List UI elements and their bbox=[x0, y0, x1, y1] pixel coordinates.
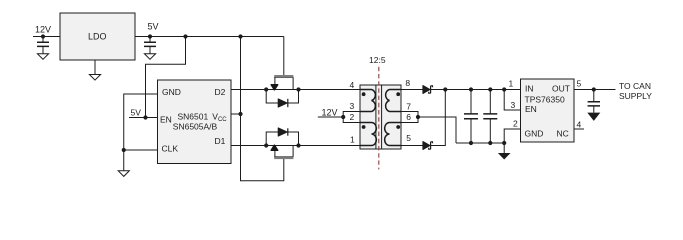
ground (open) under U1 bbox=[118, 171, 129, 177]
svg-text:3: 3 bbox=[350, 101, 355, 111]
capacitor C4 bbox=[488, 87, 492, 91]
svg-text:GND: GND bbox=[162, 87, 181, 97]
svg-text:5: 5 bbox=[406, 133, 411, 143]
wire diode D_B to rectifier node bbox=[431, 90, 446, 146]
T1 primary winding lower bbox=[360, 123, 376, 146]
junction EN wire bbox=[143, 115, 147, 119]
wire secondary ground rail bbox=[456, 142, 504, 144]
T1 secondary winding lower bbox=[385, 123, 401, 146]
svg-text:4: 4 bbox=[350, 80, 355, 90]
svg-text:SN6501: SN6501 bbox=[178, 112, 209, 122]
Q2 source arrow bbox=[271, 145, 278, 150]
junction CLK/GND bbox=[122, 148, 126, 152]
junction Q2 right bbox=[296, 143, 300, 147]
junction 5V rail to Vcc/Q2 gate feed bbox=[238, 34, 242, 38]
wire GND pin of U1 bbox=[124, 94, 158, 171]
capacitor C_12V bbox=[42, 37, 44, 43]
svg-text:2: 2 bbox=[513, 119, 518, 129]
wire rectified rail to TPS IN bbox=[430, 89, 520, 91]
svg-text:2: 2 bbox=[350, 112, 355, 122]
junction Q1 left bbox=[264, 87, 268, 91]
junction ground rail end bbox=[502, 141, 506, 145]
wire Q1 gate stem bbox=[283, 37, 285, 76]
svg-text:NC: NC bbox=[557, 128, 569, 138]
svg-text:1: 1 bbox=[509, 78, 514, 88]
Q1 body diode bbox=[278, 99, 287, 107]
svg-text:SUPPLY: SUPPLY bbox=[619, 91, 652, 101]
svg-text:LDO: LDO bbox=[88, 32, 107, 42]
T1 phase dot secondary upper bbox=[396, 92, 400, 96]
ground (filled) under C5 bbox=[587, 113, 600, 121]
wire pin 5 to diode D_B bbox=[401, 145, 423, 147]
wire 12V stub to center tap bbox=[318, 116, 343, 118]
svg-text:12:5: 12:5 bbox=[369, 55, 386, 65]
wire 12V input bbox=[33, 36, 60, 38]
wire D1 to transformer pin 1 bbox=[231, 145, 360, 147]
svg-text:CLK: CLK bbox=[162, 144, 179, 154]
wire pins 7-6 bracket bbox=[401, 112, 418, 123]
T1 secondary winding upper bbox=[386, 90, 401, 112]
Q2 channel drops bbox=[275, 146, 293, 157]
junction rectifier node bbox=[443, 87, 447, 91]
wire ground stem bbox=[503, 143, 505, 153]
ground under LDO bbox=[94, 60, 96, 75]
T1 phase dot secondary lower bbox=[396, 125, 400, 129]
svg-text:SN6505A/B: SN6505A/B bbox=[173, 121, 218, 131]
wire Vcc riser and Q2 gate feed bbox=[241, 37, 284, 181]
Q2 body diode bbox=[278, 128, 287, 136]
T1 isolation dashed line bbox=[378, 67, 380, 170]
ground (filled) under U2 bbox=[498, 153, 511, 160]
svg-text:1: 1 bbox=[350, 135, 355, 145]
ground (open) under C_12V bbox=[37, 54, 48, 60]
svg-text:TO CAN: TO CAN bbox=[619, 81, 651, 91]
transistor Q1 (upper FET) bbox=[264, 37, 301, 108]
junction 5V bbox=[148, 34, 152, 38]
IC U2 TPS76350 bbox=[521, 79, 575, 142]
T1 body bbox=[360, 85, 401, 149]
svg-text:5: 5 bbox=[577, 78, 582, 88]
svg-text:EN: EN bbox=[160, 115, 172, 125]
capacitor C3 bbox=[469, 87, 473, 91]
svg-text:D2: D2 bbox=[215, 87, 226, 97]
wire 5V feed down to EN pin bbox=[146, 37, 186, 118]
Q2 body diode loop bbox=[266, 132, 298, 146]
wire pins 3-2 bracket bbox=[343, 112, 360, 123]
svg-text:3: 3 bbox=[511, 100, 516, 110]
Q1 source arrow bbox=[271, 85, 278, 90]
svg-text:8: 8 bbox=[405, 78, 410, 88]
svg-text:D1: D1 bbox=[215, 136, 226, 146]
junction center tap left bbox=[341, 115, 345, 119]
svg-text:TPS76350: TPS76350 bbox=[525, 94, 565, 104]
junction 5V rail to EN feed bbox=[183, 34, 187, 38]
wire D2 to transformer pin 4 bbox=[231, 89, 360, 91]
wire GND pin of U2 bbox=[504, 129, 520, 143]
svg-text:6: 6 bbox=[406, 112, 411, 122]
T1 phase dot primary lower bbox=[362, 125, 366, 129]
capacitor C_5V bbox=[149, 37, 151, 43]
Q1 gate bar bbox=[274, 75, 293, 78]
wire center tap to ground rail bbox=[418, 117, 456, 143]
wire EN pin stub bbox=[129, 117, 158, 119]
Q2 gate bar bbox=[274, 157, 293, 160]
T1 phase dot primary upper bbox=[362, 92, 366, 96]
diode D_B (schottky) bbox=[423, 142, 430, 150]
T1 primary winding upper bbox=[360, 90, 375, 112]
wire Vcc pin stub bbox=[231, 113, 241, 115]
wire 5V rail from LDO to Q1 gate corner bbox=[135, 36, 284, 38]
junction 12V bbox=[41, 34, 45, 38]
T1 core bbox=[376, 85, 382, 149]
junction Q2 left bbox=[264, 143, 268, 147]
svg-text:7: 7 bbox=[406, 102, 411, 112]
wire EN feed of U2 bbox=[504, 90, 520, 111]
capacitor C5 bbox=[593, 90, 595, 102]
svg-text:IN: IN bbox=[525, 83, 534, 93]
diode D_A (schottky) bbox=[423, 86, 430, 94]
wire OUT to CAN supply bbox=[574, 89, 616, 91]
svg-text:12V: 12V bbox=[322, 107, 338, 117]
wire pin 8 to diode D_A bbox=[401, 89, 423, 91]
ground (open) under C_5V bbox=[144, 54, 155, 60]
svg-text:GND: GND bbox=[525, 128, 544, 138]
voltage regulator LDO bbox=[60, 13, 135, 60]
IC U1 SN6501/SN6505 bbox=[158, 80, 232, 164]
transformer T1 bbox=[350, 55, 412, 169]
junction Vcc tap bbox=[238, 112, 242, 116]
Q1 channel drops bbox=[275, 77, 293, 89]
svg-text:5V: 5V bbox=[148, 22, 159, 32]
svg-text:12V: 12V bbox=[35, 25, 51, 35]
Q1 body diode loop bbox=[266, 90, 298, 104]
transistor Q2 (lower FET) bbox=[264, 128, 301, 159]
wire CLK pin of U1 bbox=[124, 149, 158, 151]
junction Q1 right bbox=[296, 87, 300, 91]
svg-text:EN: EN bbox=[525, 104, 537, 114]
svg-text:4: 4 bbox=[577, 119, 582, 129]
svg-text:OUT: OUT bbox=[552, 83, 570, 93]
junction IN/EN tap bbox=[502, 87, 506, 91]
junction center tap right bbox=[416, 115, 420, 119]
svg-text:5V: 5V bbox=[131, 108, 142, 118]
wire NC stub bbox=[574, 128, 584, 130]
junction output bbox=[592, 87, 596, 91]
